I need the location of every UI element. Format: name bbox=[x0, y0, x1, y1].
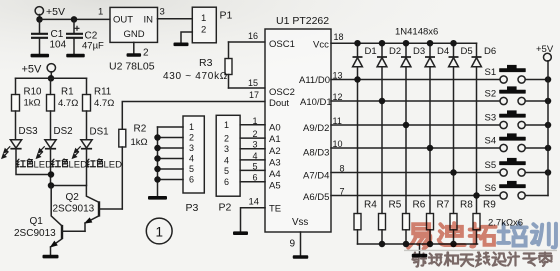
svg-text:IN: IN bbox=[144, 15, 154, 26]
svg-text:A8/D3: A8/D3 bbox=[303, 148, 329, 159]
svg-text:1: 1 bbox=[98, 7, 103, 18]
svg-text:2: 2 bbox=[143, 48, 149, 59]
junction D4 bus bbox=[427, 40, 434, 47]
resistor R10 bbox=[15, 78, 17, 94]
wire TE pin14 to ground bbox=[241, 208, 266, 232]
resistor R1 bbox=[50, 78, 52, 94]
connector P3 bbox=[183, 116, 204, 193]
+5V terminal (right) bbox=[544, 53, 552, 61]
ground P1 bbox=[174, 43, 189, 47]
IC U1 PT2262 box bbox=[265, 29, 331, 232]
svg-text:A0: A0 bbox=[269, 123, 281, 134]
junction D2 bus bbox=[379, 40, 386, 47]
junction LED node 1 bbox=[48, 171, 55, 178]
wire +5V vertical line bbox=[547, 61, 549, 196]
wire R6 to ground bus bbox=[405, 230, 407, 244]
P3 common bus bbox=[157, 127, 159, 196]
svg-text:P3: P3 bbox=[186, 202, 199, 214]
svg-text:TE: TE bbox=[269, 204, 281, 215]
junction ground bus bbox=[403, 241, 410, 248]
svg-text:D4: D4 bbox=[437, 46, 449, 57]
resistor R10 body bbox=[12, 95, 20, 112]
svg-text:13: 13 bbox=[333, 71, 343, 81]
svg-text:R4: R4 bbox=[364, 200, 377, 211]
junction S4 +5V bbox=[545, 145, 552, 152]
wire P3 pin 1 stub bbox=[158, 126, 184, 128]
junction row-pulldown bbox=[450, 169, 457, 176]
svg-text:C1: C1 bbox=[51, 29, 64, 40]
wire P3 pin 3 stub bbox=[158, 147, 184, 149]
svg-text:1: 1 bbox=[253, 116, 258, 126]
switch S3 bbox=[499, 110, 526, 128]
wire A5 pin 6 bbox=[240, 181, 265, 183]
svg-text:R3: R3 bbox=[199, 57, 213, 69]
wire OSC1 pin16 bbox=[229, 41, 266, 43]
svg-text:S5: S5 bbox=[485, 160, 497, 171]
resistor R3 body bbox=[225, 59, 232, 75]
svg-text:12: 12 bbox=[333, 92, 343, 102]
svg-text:P2: P2 bbox=[219, 202, 232, 214]
svg-text:OUT: OUT bbox=[113, 15, 133, 26]
watermark subtitle characters bbox=[413, 253, 552, 267]
svg-text:LED: LED bbox=[104, 160, 123, 171]
svg-text:A9/D2: A9/D2 bbox=[303, 123, 329, 134]
svg-text:A11/D0: A11/D0 bbox=[299, 75, 330, 86]
svg-text:R1: R1 bbox=[61, 87, 74, 98]
ground C1 bbox=[31, 54, 50, 58]
svg-text:2SC9013: 2SC9013 bbox=[14, 228, 56, 239]
junction S2 +5V bbox=[545, 98, 552, 105]
svg-text:1kΩ: 1kΩ bbox=[24, 98, 41, 109]
svg-text:4.7Ω: 4.7Ω bbox=[58, 98, 78, 109]
svg-text:3: 3 bbox=[253, 140, 258, 150]
svg-text:47µF: 47µF bbox=[82, 41, 104, 52]
resistor R6 body bbox=[403, 214, 410, 230]
wire Dout pin17 to R2 bbox=[122, 102, 265, 130]
LED DS2 bbox=[37, 140, 57, 158]
diode D4 bbox=[425, 43, 435, 213]
junction P3 bus bbox=[154, 176, 161, 183]
svg-text:DS1: DS1 bbox=[90, 127, 109, 138]
transistor Q1 bbox=[51, 186, 86, 255]
LED DS1 bbox=[73, 140, 93, 158]
resistor R9 body bbox=[473, 214, 480, 230]
svg-text:R10: R10 bbox=[24, 87, 43, 98]
svg-text:R7: R7 bbox=[437, 200, 450, 211]
wire DS2 cathode bbox=[50, 149, 52, 186]
svg-text:D1: D1 bbox=[365, 46, 377, 57]
svg-text:R6: R6 bbox=[413, 200, 426, 211]
junction row-pulldown bbox=[427, 145, 434, 152]
junction row-pulldown bbox=[379, 98, 386, 105]
svg-text:R2: R2 bbox=[134, 124, 147, 135]
svg-text:7: 7 bbox=[340, 187, 345, 197]
svg-text:18: 18 bbox=[334, 32, 344, 42]
junction C2 node bbox=[71, 16, 78, 23]
svg-text:A1: A1 bbox=[269, 134, 281, 145]
wire A0 pin 1 bbox=[240, 124, 265, 126]
svg-text:Q2: Q2 bbox=[66, 192, 80, 203]
svg-text:4: 4 bbox=[253, 151, 258, 161]
svg-text:5: 5 bbox=[189, 164, 194, 174]
junction S5 +5V bbox=[545, 169, 552, 176]
junction P3 bus bbox=[154, 155, 161, 162]
svg-text:A2: A2 bbox=[269, 146, 281, 157]
ground U2 bbox=[127, 53, 142, 57]
wire data row pin 13 bbox=[331, 79, 500, 81]
junction C1 node bbox=[36, 16, 43, 23]
diode D1 bbox=[353, 43, 363, 213]
svg-text:8: 8 bbox=[340, 164, 345, 174]
junction D1 bus bbox=[354, 40, 361, 47]
junction D5 bus bbox=[450, 40, 457, 47]
junction S1 +5V bbox=[545, 76, 552, 83]
resistor R4 body bbox=[354, 214, 361, 230]
svg-text:17: 17 bbox=[249, 90, 259, 100]
svg-text:3: 3 bbox=[189, 143, 194, 153]
capacitor C2 (polarized) bbox=[66, 19, 83, 53]
resistor R11 body bbox=[83, 95, 91, 112]
resistor R3 bbox=[228, 42, 230, 59]
wire P3 pin 4 stub bbox=[158, 158, 184, 160]
switch S1 bbox=[499, 65, 526, 83]
svg-text:S1: S1 bbox=[485, 67, 497, 78]
+5V terminal (left middle) bbox=[47, 64, 55, 72]
ground P3 bbox=[148, 196, 167, 200]
svg-text:A7/D4: A7/D4 bbox=[303, 171, 329, 182]
wire OSC2 pin15 bbox=[229, 87, 266, 89]
wire R7 to ground bus bbox=[429, 230, 431, 244]
svg-text:D6: D6 bbox=[484, 46, 496, 57]
wire R4 to ground bus bbox=[357, 230, 359, 244]
resistor R1 body bbox=[47, 95, 55, 112]
svg-text:A10/D1: A10/D1 bbox=[300, 97, 332, 108]
svg-text:5: 5 bbox=[224, 166, 229, 176]
svg-text:3: 3 bbox=[160, 7, 165, 18]
wire DS1 cathode bbox=[51, 149, 87, 186]
junction row-pulldown bbox=[473, 192, 480, 199]
ground TE bbox=[233, 231, 248, 235]
svg-text:1: 1 bbox=[224, 120, 229, 130]
svg-text:R9: R9 bbox=[483, 200, 496, 211]
wire R9 to ground bus bbox=[476, 230, 478, 244]
svg-text:Vcc: Vcc bbox=[313, 40, 329, 51]
svg-text:A5: A5 bbox=[269, 181, 281, 192]
svg-text:1N4148x6: 1N4148x6 bbox=[395, 27, 438, 38]
wire R5 to ground bus bbox=[381, 230, 383, 244]
junction row-pulldown bbox=[403, 122, 410, 129]
wire P1 pin2 to ground bbox=[181, 32, 192, 42]
svg-text:OSC2: OSC2 bbox=[269, 87, 295, 98]
wire A3 pin 4 bbox=[240, 159, 265, 161]
svg-text:GND: GND bbox=[124, 29, 145, 40]
junction ground bus bbox=[427, 241, 434, 248]
switch S4 bbox=[499, 133, 526, 151]
svg-text:15: 15 bbox=[248, 78, 258, 88]
wire S3 to +5V line bbox=[525, 124, 548, 126]
svg-text:D2: D2 bbox=[389, 46, 401, 57]
svg-text:Q1: Q1 bbox=[30, 216, 44, 227]
svg-text:4: 4 bbox=[189, 154, 194, 164]
svg-text:104: 104 bbox=[50, 40, 67, 51]
svg-text:1kΩ: 1kΩ bbox=[131, 137, 148, 148]
capacitor C1 bbox=[31, 19, 48, 53]
wire data row pin 8 bbox=[331, 172, 500, 174]
wire P3 pin 2 stub bbox=[158, 137, 184, 139]
wire +5V to rail bbox=[39, 15, 41, 20]
svg-text:LED: LED bbox=[34, 160, 53, 171]
svg-text:+5V: +5V bbox=[536, 44, 554, 55]
wire DS3 cathode bbox=[16, 149, 51, 175]
svg-text:2: 2 bbox=[201, 25, 206, 36]
svg-text:S3: S3 bbox=[485, 113, 497, 124]
wire S2 to +5V line bbox=[525, 100, 548, 102]
resistor R5 body bbox=[379, 214, 386, 230]
svg-text:U2 78L05: U2 78L05 bbox=[109, 61, 155, 73]
wire +5V rail to U2 OUT bbox=[40, 18, 111, 20]
svg-text:3: 3 bbox=[224, 144, 229, 154]
svg-text:6: 6 bbox=[224, 177, 229, 187]
ground Vss bbox=[293, 255, 309, 259]
svg-text:6: 6 bbox=[253, 173, 258, 183]
svg-text:14: 14 bbox=[249, 197, 260, 208]
svg-text:S4: S4 bbox=[485, 136, 497, 147]
svg-text:1: 1 bbox=[189, 122, 194, 132]
wire data row pin 10 bbox=[331, 147, 500, 149]
svg-text:+5V: +5V bbox=[22, 64, 43, 76]
ground bus bottom bbox=[358, 243, 478, 245]
resistor R8 body bbox=[450, 214, 457, 230]
junction rail2 bbox=[48, 75, 55, 82]
svg-text:2: 2 bbox=[253, 129, 258, 139]
svg-text:U1 PT2262: U1 PT2262 bbox=[276, 15, 329, 27]
junction ground bus bbox=[450, 241, 457, 248]
svg-text:2: 2 bbox=[189, 133, 194, 143]
svg-text:4: 4 bbox=[224, 155, 229, 165]
wire rail2 bbox=[16, 77, 87, 79]
connector P1 bbox=[192, 7, 216, 43]
U2 GND pin 2 bbox=[133, 42, 135, 53]
svg-text:S6: S6 bbox=[485, 183, 497, 194]
svg-text:R11: R11 bbox=[94, 87, 111, 98]
text 红色LED (DS2) bbox=[52, 159, 68, 167]
junction D3 bus bbox=[403, 40, 410, 47]
junction P3 bus bbox=[154, 145, 161, 152]
ground bus symbol bbox=[419, 244, 421, 254]
svg-text:S2: S2 bbox=[485, 89, 497, 100]
svg-text:9: 9 bbox=[290, 239, 296, 250]
svg-text:4.7Ω: 4.7Ω bbox=[94, 98, 114, 109]
svg-text:D5: D5 bbox=[461, 46, 473, 57]
wire P3 pin 6 stub bbox=[158, 179, 184, 181]
svg-text:P1: P1 bbox=[220, 10, 233, 22]
resistor R2 body bbox=[119, 129, 126, 147]
watermark logo big characters bbox=[408, 223, 556, 249]
wire S1 to +5V line bbox=[525, 79, 548, 81]
svg-text:+5V: +5V bbox=[46, 6, 65, 18]
svg-text:DS3: DS3 bbox=[19, 126, 39, 137]
diode D6 bbox=[472, 43, 482, 213]
diode D3 bbox=[401, 43, 411, 213]
wire A2 pin 3 bbox=[240, 148, 265, 150]
junction row-pulldown bbox=[354, 76, 361, 83]
switch S5 bbox=[499, 158, 526, 176]
text 红色LED (DS1) bbox=[87, 159, 103, 167]
svg-text:OSC1: OSC1 bbox=[269, 39, 295, 50]
svg-text:A4: A4 bbox=[269, 169, 281, 180]
svg-text:LED: LED bbox=[69, 160, 88, 171]
junction S3 +5V bbox=[545, 122, 552, 129]
wire Vcc bus pin18 bbox=[331, 42, 477, 44]
wire S6 to +5V line bbox=[525, 195, 548, 197]
junction P3 bus bbox=[154, 166, 161, 173]
svg-text:2SC9013: 2SC9013 bbox=[53, 204, 95, 215]
diode D2 bbox=[377, 43, 387, 213]
svg-text:5: 5 bbox=[253, 161, 258, 171]
svg-text:10: 10 bbox=[333, 139, 343, 149]
text 红色LED (DS3) bbox=[17, 159, 33, 167]
switch S6 bbox=[499, 181, 526, 199]
svg-text:R5: R5 bbox=[389, 200, 402, 211]
svg-text:D3: D3 bbox=[413, 46, 425, 57]
svg-text:11: 11 bbox=[333, 116, 342, 126]
wire U2 IN to P1 pin1 bbox=[158, 18, 193, 20]
node marker circled 1 bbox=[146, 218, 172, 244]
regulator U2 78L05 box bbox=[110, 7, 158, 42]
wire data row pin 11 bbox=[331, 124, 500, 126]
+5V terminal (top-left) bbox=[35, 7, 43, 15]
wire A4 pin 5 bbox=[240, 169, 265, 171]
wire P3 pin 5 stub bbox=[158, 168, 184, 170]
svg-text:Vss: Vss bbox=[292, 217, 308, 228]
switch S2 bbox=[499, 86, 526, 104]
svg-text:430 ~ 470kΩ: 430 ~ 470kΩ bbox=[163, 71, 228, 82]
wire R8 to ground bus bbox=[453, 230, 455, 244]
Vss pin 9 wire bbox=[300, 232, 302, 255]
resistor R7 body bbox=[427, 214, 434, 230]
svg-text:R8: R8 bbox=[460, 200, 473, 211]
svg-text:DS2: DS2 bbox=[54, 126, 73, 137]
wire R2 to Q2 base node bbox=[121, 147, 123, 209]
ground C2 bbox=[66, 54, 85, 58]
junction ground bus bbox=[379, 241, 386, 248]
wire data row pin 7 bbox=[331, 195, 500, 197]
svg-text:1: 1 bbox=[155, 225, 163, 240]
svg-text:Dout: Dout bbox=[269, 98, 289, 109]
transistor Q2 bbox=[85, 186, 122, 232]
wire +5V to rail2 bbox=[50, 72, 52, 79]
svg-text:2: 2 bbox=[224, 134, 229, 144]
svg-text:6: 6 bbox=[189, 175, 194, 185]
resistor R11 bbox=[86, 78, 88, 94]
wire data row pin 12 bbox=[331, 100, 500, 102]
junction P3 bus bbox=[154, 134, 161, 141]
diode D5 bbox=[449, 43, 459, 213]
junction LED node 2 bbox=[48, 182, 55, 189]
svg-text:A3: A3 bbox=[269, 158, 281, 169]
wire S5 to +5V line bbox=[525, 172, 548, 174]
svg-text:16: 16 bbox=[248, 31, 258, 41]
watermark separator line bbox=[404, 249, 557, 251]
LED DS3 bbox=[2, 140, 22, 158]
ground Q1 emitter bbox=[43, 255, 59, 259]
connector P2 bbox=[216, 115, 240, 196]
wire S4 to +5V line bbox=[525, 147, 548, 149]
svg-text:1: 1 bbox=[201, 13, 206, 24]
svg-text:A6/D5: A6/D5 bbox=[303, 192, 329, 203]
wire A1 pin 2 bbox=[240, 137, 265, 139]
